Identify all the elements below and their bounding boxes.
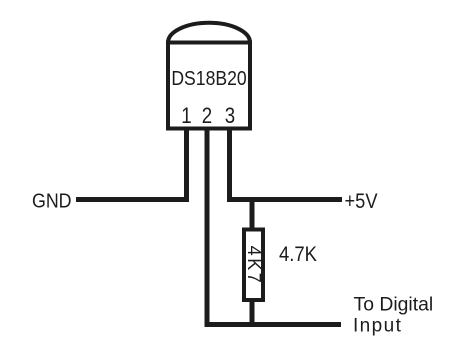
wire resistor top lead — [250, 202, 255, 229]
wire pin3 leg — [227, 128, 232, 202]
svg-text:+5V: +5V — [345, 190, 379, 213]
sensor U1 DS18B20 TO-92 dome — [168, 23, 250, 43]
svg-text:3: 3 — [225, 105, 235, 129]
wire resistor bottom lead — [250, 300, 255, 322]
wire pin1 leg — [184, 128, 189, 202]
wire GND horizontal — [76, 197, 189, 202]
svg-text:Input: Input — [353, 316, 402, 337]
wire pin2 leg — [205, 128, 210, 327]
svg-text:4K7: 4K7 — [244, 246, 264, 286]
resistor R1 body — [244, 230, 263, 301]
sensor U1 DS18B20 body — [168, 43, 250, 129]
svg-text:To Digital: To Digital — [354, 295, 434, 316]
wire +5V horizontal — [227, 197, 342, 202]
svg-text:DS18B20: DS18B20 — [171, 67, 246, 89]
svg-text:1: 1 — [181, 105, 191, 129]
svg-text:4.7K: 4.7K — [279, 243, 317, 266]
wire bottom data horizontal — [205, 322, 342, 327]
svg-text:2: 2 — [202, 105, 212, 129]
svg-text:GND: GND — [32, 191, 72, 213]
